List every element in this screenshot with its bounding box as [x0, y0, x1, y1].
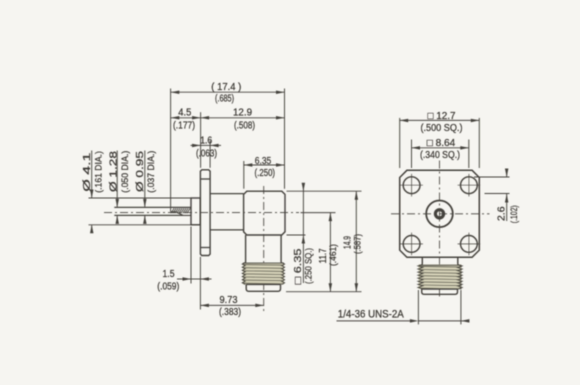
dim □12.7/(.500 SQ.) flange square — [400, 111, 480, 168]
svg-text:1.6: 1.6 — [200, 135, 212, 146]
left view: horizontal centerline (connector axis) — [104, 212, 299, 214]
svg-text:□ 12.7: □ 12.7 — [428, 111, 456, 122]
dim 11.7/(.461) axis to interface (rotated) — [301, 213, 339, 292]
svg-text:4.5: 4.5 — [178, 107, 191, 118]
svg-text:6.35: 6.35 — [255, 156, 272, 167]
dim 14.9/(.587) overall height (rotated) — [286, 191, 363, 292]
left view: body between flange and block — [210, 194, 244, 230]
thread callout 1/4-36 UNS-2A with leader — [337, 290, 470, 324]
dim 9.73/(.383) flange face to axis — [200, 295, 263, 318]
svg-text:Ø 0.95: Ø 0.95 — [135, 150, 146, 192]
svg-text:1.5: 1.5 — [163, 269, 175, 280]
svg-text:(.383): (.383) — [219, 307, 241, 318]
right view: top-left mounting hole — [400, 174, 423, 197]
dim 1.5/(.059) bushing protrusion — [157, 227, 211, 310]
left view: dielectric bushing — [191, 198, 200, 225]
dim 2.6/(.102) mounting hole diameter (rotated) — [474, 169, 519, 224]
dim (17.4)/(.685) overall length — [171, 82, 285, 212]
right view: vertical centerline — [439, 161, 441, 297]
dim 6.35/(.250) block width — [244, 156, 285, 189]
dim □6.35/(.250 SQ.) block square (rotated) — [287, 183, 362, 285]
svg-text:9.73: 9.73 — [220, 295, 238, 306]
svg-text:(.037 DIA.): (.037 DIA.) — [146, 151, 156, 193]
svg-text:(.250): (.250) — [255, 168, 276, 179]
dim Ø0.95/(.037 DIA.) pin diameter — [135, 150, 156, 223]
dim 4.5/(.177) set-back — [171, 107, 201, 131]
svg-text:(.161 DIA.): (.161 DIA.) — [93, 151, 103, 193]
svg-text:(.508): (.508) — [234, 120, 255, 131]
svg-text:(.177): (.177) — [173, 120, 195, 131]
left view: coupling neck — [246, 235, 282, 263]
svg-text:□ 6.35: □ 6.35 — [293, 248, 304, 285]
left view: captivation bead (hatched) — [170, 208, 191, 215]
svg-text:(.059): (.059) — [157, 282, 179, 293]
svg-text:Ø 4.1: Ø 4.1 — [82, 152, 93, 192]
svg-text:(.050 DIA.): (.050 DIA.) — [120, 151, 130, 193]
right view: coupling neck — [422, 257, 458, 264]
right view: top-right mounting hole — [458, 174, 481, 197]
right view: outer conductor circle — [426, 201, 453, 228]
svg-text:(.461): (.461) — [328, 244, 338, 266]
svg-text:□ 8.64: □ 8.64 — [427, 138, 456, 149]
left view: mounting flange plate (side) — [200, 170, 210, 256]
dim Ø4.1/(.161 DIA.) bushing diameter — [82, 151, 190, 234]
dim 12.9/(.508) flange face to body end — [201, 107, 285, 168]
dim 1.6/(.063) flange thickness — [191, 135, 222, 167]
svg-text:1/4-36 UNS-2A: 1/4-36 UNS-2A — [338, 308, 405, 320]
dim Ø1.28/(.050 DIA.) pin shoulder diameter — [109, 150, 130, 223]
right view: 1/4-36 thread (zigzag) — [418, 264, 462, 289]
right view: jack nose ring — [422, 289, 458, 294]
left view: 1/4-36 thread (hatched zigzag) — [242, 263, 284, 285]
right view: center pin socket — [435, 210, 443, 218]
left view: jack nose ring — [246, 284, 280, 291]
right view: bottom-left mounting hole — [400, 233, 423, 256]
left view: vertical centerline of coupling nut — [263, 186, 265, 312]
svg-text:(.063): (.063) — [196, 148, 217, 159]
svg-text:Ø 1.28: Ø 1.28 — [109, 150, 120, 192]
svg-text:( 17.4 ): ( 17.4 ) — [211, 82, 241, 93]
svg-text:(.500 SQ.): (.500 SQ.) — [421, 123, 463, 134]
svg-text:2.6: 2.6 — [496, 206, 507, 221]
left view: square body block 6.35 sq — [244, 191, 285, 235]
svg-text:(.250 SQ.): (.250 SQ.) — [303, 248, 313, 284]
left view: center pin contact — [114, 207, 191, 215]
svg-text:(.102): (.102) — [509, 205, 519, 223]
svg-text:12.9: 12.9 — [233, 107, 252, 118]
svg-text:(.340 SQ.): (.340 SQ.) — [420, 150, 460, 161]
right view: square mounting flange (front) — [400, 170, 480, 257]
right view: horizontal centerline — [391, 213, 490, 215]
svg-text:(.685): (.685) — [215, 94, 234, 105]
dim □8.64/(.340 SQ.) hole spacing — [412, 138, 469, 168]
right view: bottom-right mounting hole — [458, 233, 481, 256]
svg-text:(.587): (.587) — [353, 234, 363, 254]
